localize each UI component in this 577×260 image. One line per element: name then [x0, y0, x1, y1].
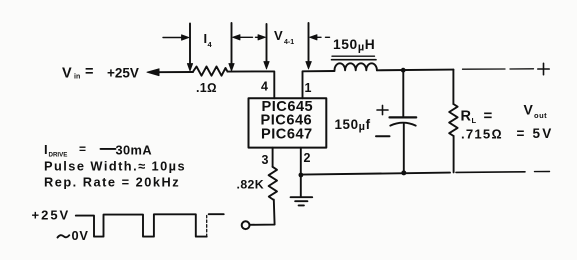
wire pin 3 stub: [272, 148, 274, 167]
svg-text:2: 2: [304, 151, 311, 165]
svg-text:.82K: .82K: [237, 178, 265, 192]
svg-text:Pulse Width.≈ 10µs: Pulse Width.≈ 10µs: [44, 159, 186, 174]
wire drive pulse waveform: [76, 214, 207, 236]
svg-text:V: V: [62, 65, 72, 81]
node I4 current label: [204, 31, 213, 49]
svg-text:=: =: [85, 64, 93, 80]
svg-text:L: L: [472, 116, 477, 125]
wire pin 2 down to ground rail: [300, 148, 302, 175]
node cap plus sign: [377, 109, 388, 111]
node V4-1 label: [274, 28, 294, 46]
wire bottom rail: [301, 173, 450, 175]
svg-text:V: V: [274, 28, 283, 43]
svg-text:3: 3: [262, 153, 269, 167]
svg-text:0V: 0V: [72, 228, 89, 243]
node measurement bar 2: [231, 23, 233, 65]
resistor 82K: [269, 167, 277, 200]
svg-text:+25V: +25V: [32, 207, 71, 222]
node junction dot at capacitor top: [401, 68, 406, 73]
svg-text:PIC647: PIC647: [261, 127, 313, 143]
svg-text:+25V: +25V: [107, 66, 139, 81]
node measurement bar 1: [189, 24, 191, 66]
node junction dot pin 2 rail: [299, 173, 304, 178]
wire pin 1 up and right to inductor: [303, 71, 335, 98]
node approx tilde before 0V: [58, 235, 70, 237]
svg-text:4-1: 4-1: [284, 39, 294, 46]
wire resistor to pin 4 corner: [228, 71, 275, 98]
node Vout label: [517, 101, 554, 141]
node waveform labels: [32, 207, 89, 243]
wire Vin arrow: [147, 69, 159, 76]
node measurement bar 3: [266, 24, 268, 63]
op-amp U1 PIC645 chip box: [249, 98, 327, 147]
node pin 4 label: [261, 80, 268, 94]
wire arrow into I4 bar: [163, 37, 183, 39]
wire dimension arrow between bars 2 and 3: [233, 35, 241, 40]
resistor .1 ohm: [193, 67, 228, 76]
svg-text:4: 4: [261, 80, 268, 94]
svg-text:1: 1: [305, 81, 312, 95]
node junction dot cap bottom: [401, 170, 406, 175]
wire dashed arrow into bar 4: [310, 35, 318, 40]
svg-text:out: out: [534, 111, 547, 120]
node measurement bar 4: [308, 23, 310, 63]
svg-text:30mA: 30mA: [116, 143, 152, 158]
svg-text:I: I: [44, 142, 48, 157]
svg-text:Rep. Rate = 20kHz: Rep. Rate = 20kHz: [44, 175, 180, 190]
svg-text:150µH: 150µH: [333, 37, 375, 54]
wire 82K to drive terminal: [250, 200, 275, 225]
node output + terminal: [538, 68, 549, 70]
node pin 1 label: [305, 81, 312, 95]
capacitor C1 150uF: [402, 70, 404, 116]
svg-text:.1Ω: .1Ω: [196, 81, 217, 95]
svg-text:=: =: [79, 142, 86, 156]
svg-text:DRIVE: DRIVE: [49, 152, 68, 159]
svg-text:= 5V: = 5V: [517, 126, 554, 141]
inductor L1 150uH: [335, 63, 377, 70]
node pin 2 label: [304, 151, 311, 165]
node drive input terminal circle: [242, 221, 250, 229]
wire inductor to RL corner: [377, 69, 454, 72]
svg-text:150µf: 150µf: [335, 117, 371, 133]
svg-text:R: R: [461, 108, 472, 124]
ground: [300, 175, 302, 197]
node drive parameters text: [44, 142, 186, 190]
node cap minus sign: [376, 135, 390, 137]
wire dashed output plus lead: [463, 68, 506, 70]
svg-text:.715Ω: .715Ω: [461, 127, 503, 142]
node pin 3 label: [262, 153, 269, 167]
svg-text:V: V: [524, 101, 534, 117]
node Vin label: [62, 64, 139, 81]
resistor RL .715 ohm: [452, 70, 454, 104]
svg-text:=: =: [484, 107, 493, 124]
svg-text:in: in: [74, 74, 80, 81]
